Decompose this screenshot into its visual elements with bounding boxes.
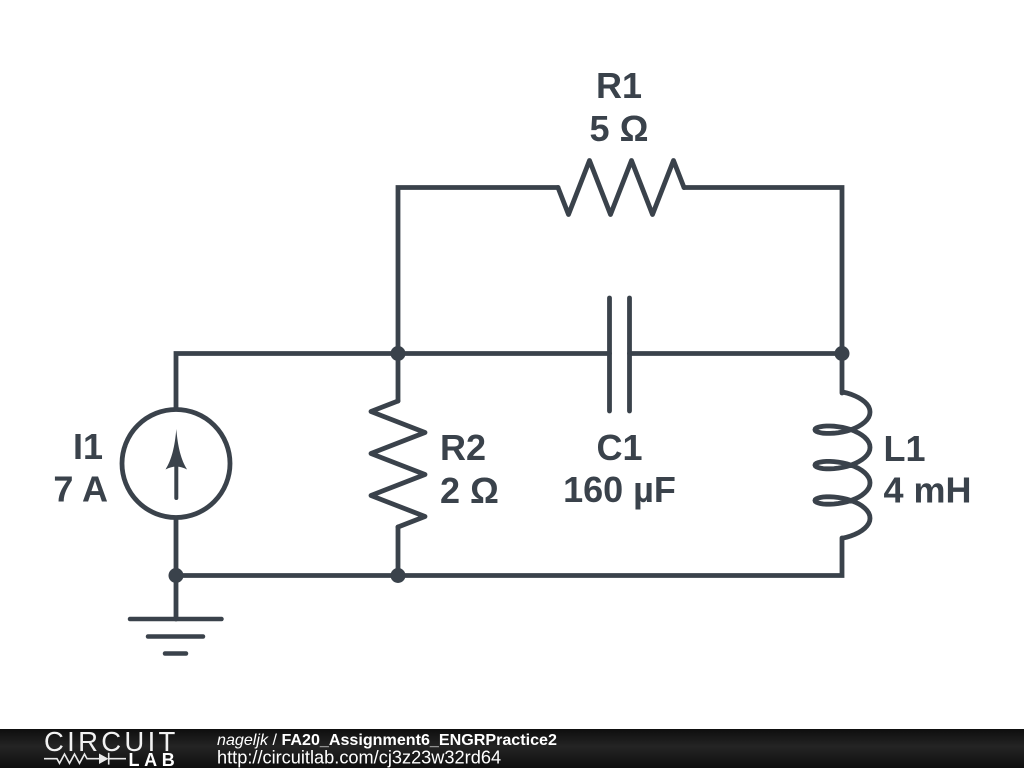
svg-text:R1: R1 (596, 65, 642, 106)
wire R2 top lead (396, 354, 401, 402)
svg-text:R2: R2 (440, 427, 486, 468)
svg-text:4 mH: 4 mH (884, 470, 972, 511)
capacitor C1 (610, 298, 630, 411)
wire L1 top lead (840, 354, 845, 394)
wire top left segment (R1 left lead) (398, 188, 558, 354)
wire middle left (I1 top to C1 left plate) (176, 354, 610, 410)
svg-text:L1: L1 (884, 428, 926, 469)
svg-text:7 A: 7 A (53, 469, 108, 510)
wire R2 bottom lead (396, 527, 401, 576)
current source I1 (122, 410, 230, 518)
resistor R1 (558, 161, 684, 215)
wire bottom (ground net) and L1 bottom lead (176, 538, 842, 576)
ground (130, 619, 222, 654)
svg-text:2 Ω: 2 Ω (440, 470, 499, 511)
wire I1 bottom lead (174, 518, 179, 576)
junction dot node2 (C1 right / L1 top) (835, 346, 850, 361)
logo resistor-diode symbol (44, 753, 126, 765)
svg-text:LAB: LAB (129, 750, 180, 768)
junction dot ground net at I1 (169, 568, 184, 583)
svg-text:I1: I1 (73, 426, 103, 467)
junction dot node1 (R2 top / C1 left) (391, 346, 406, 361)
svg-text:http://circuitlab.com/cj3z23w3: http://circuitlab.com/cj3z23w32rd64 (217, 748, 501, 768)
svg-text:160 µF: 160 µF (563, 469, 676, 510)
resistor R2 (371, 401, 425, 527)
junction dot ground net at R2 (391, 568, 406, 583)
inductor L1 (815, 392, 870, 538)
wire ground stem (174, 576, 179, 620)
footer bar (0, 729, 1024, 768)
wire middle right (C1 right plate to L1 top) (630, 351, 843, 356)
svg-text:C1: C1 (596, 427, 642, 468)
wire top right segment (R1 right lead) (684, 188, 842, 354)
svg-text:5 Ω: 5 Ω (590, 108, 649, 149)
svg-text:nageljk / FA20_Assignment6_ENG: nageljk / FA20_Assignment6_ENGRPractice2 (217, 731, 557, 749)
